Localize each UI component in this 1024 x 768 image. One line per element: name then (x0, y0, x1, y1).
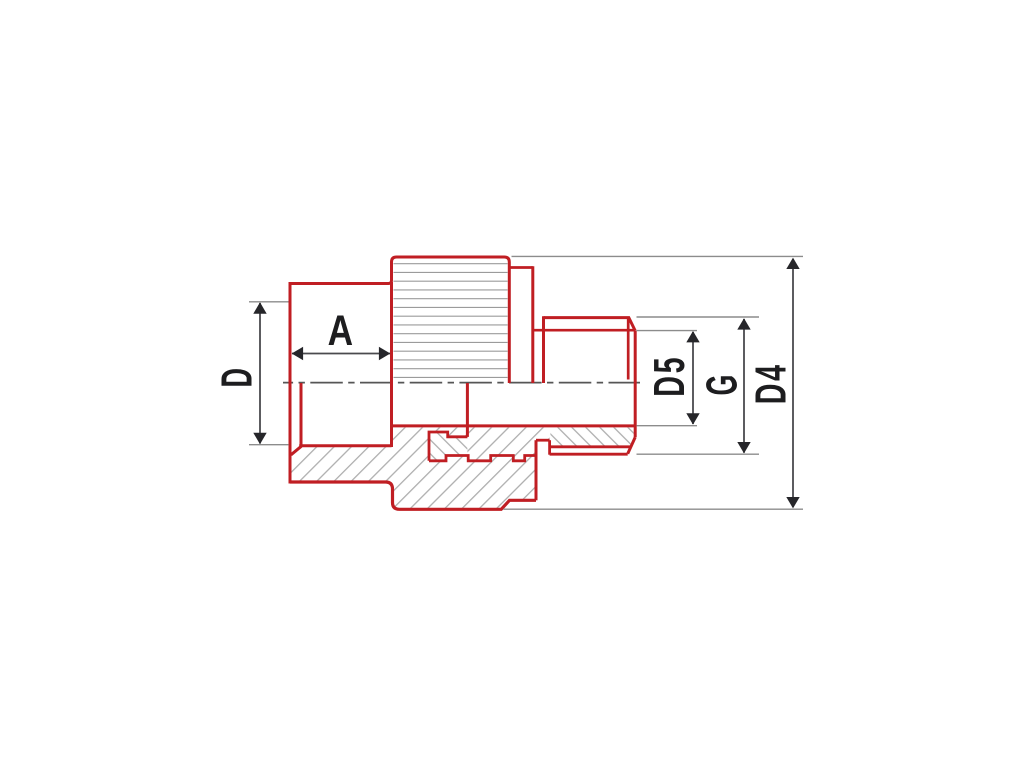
arrowhead D top (253, 302, 266, 313)
mouth chamfer (291, 446, 301, 455)
thread inner top line (533, 329, 635, 332)
thread top + chamfer (544, 318, 636, 331)
dimension line G (743, 319, 745, 453)
step top (508, 266, 533, 269)
extension line G top (637, 316, 760, 318)
bottom outline (290, 482, 536, 509)
body top + knurl top (289, 257, 510, 383)
extension line D5 top (637, 330, 698, 332)
zigzag bottom of insert (429, 456, 538, 461)
extension line D top (249, 301, 289, 303)
dimension lines (260, 259, 793, 507)
extension line D4 top (512, 255, 804, 257)
svg-text:D4: D4 (747, 362, 795, 404)
svg-text:A: A (328, 307, 353, 355)
slot right vertical (548, 440, 551, 455)
hatch: male thread section strip (550, 428, 633, 447)
arrowhead D5 bottom (686, 413, 699, 424)
hatch: strip above slot (536, 428, 550, 441)
arrowheads (253, 258, 799, 509)
knurl left / bore right wall (390, 282, 393, 447)
arrowhead G top (737, 318, 750, 329)
red outlines (289, 257, 636, 509)
dimension line D5 (692, 332, 694, 424)
step right vertical (531, 266, 534, 383)
svg-text:D5: D5 (645, 355, 693, 397)
extension lines (249, 256, 803, 509)
knurl lines (394, 264, 508, 378)
extension line D5 bottom (637, 425, 698, 427)
thread start vertical (542, 316, 545, 383)
arrowhead D4 bottom (786, 497, 799, 508)
hatch: insert pocket (opposite direction) (429, 432, 467, 461)
svg-text:D: D (212, 368, 261, 387)
joint vertical (466, 383, 469, 437)
thread inner vertical (627, 318, 630, 380)
slot left vertical (535, 440, 538, 500)
dimension line D (259, 303, 261, 444)
pocket outline (429, 432, 467, 461)
hatch: main body section (45deg up-right) (292, 428, 537, 510)
arrowhead A right (379, 347, 390, 360)
arrowhead D5 top (686, 331, 699, 342)
arrowhead D bottom (253, 433, 266, 444)
extension line D bottom (249, 444, 289, 446)
svg-text:G: G (697, 375, 746, 396)
thread bottom line 1 (550, 445, 631, 448)
centerline (283, 382, 640, 384)
long horizontal below centerline (392, 424, 636, 427)
arrowhead D4 top (786, 258, 799, 269)
arrowhead G bottom (737, 442, 750, 453)
arrowhead A left (292, 347, 303, 360)
inner wall below centerline (300, 383, 303, 445)
thread bottom line 2 (550, 453, 628, 456)
slot top (536, 439, 550, 442)
dimension line A (292, 353, 390, 355)
extension line G bottom (637, 453, 760, 455)
extension line D4 bottom (504, 508, 804, 510)
left wall (289, 282, 292, 484)
thread bottom chamfer (628, 437, 636, 454)
bore bottom (299, 444, 391, 447)
thread right edge (634, 331, 637, 437)
dimension line D4 (792, 259, 794, 507)
